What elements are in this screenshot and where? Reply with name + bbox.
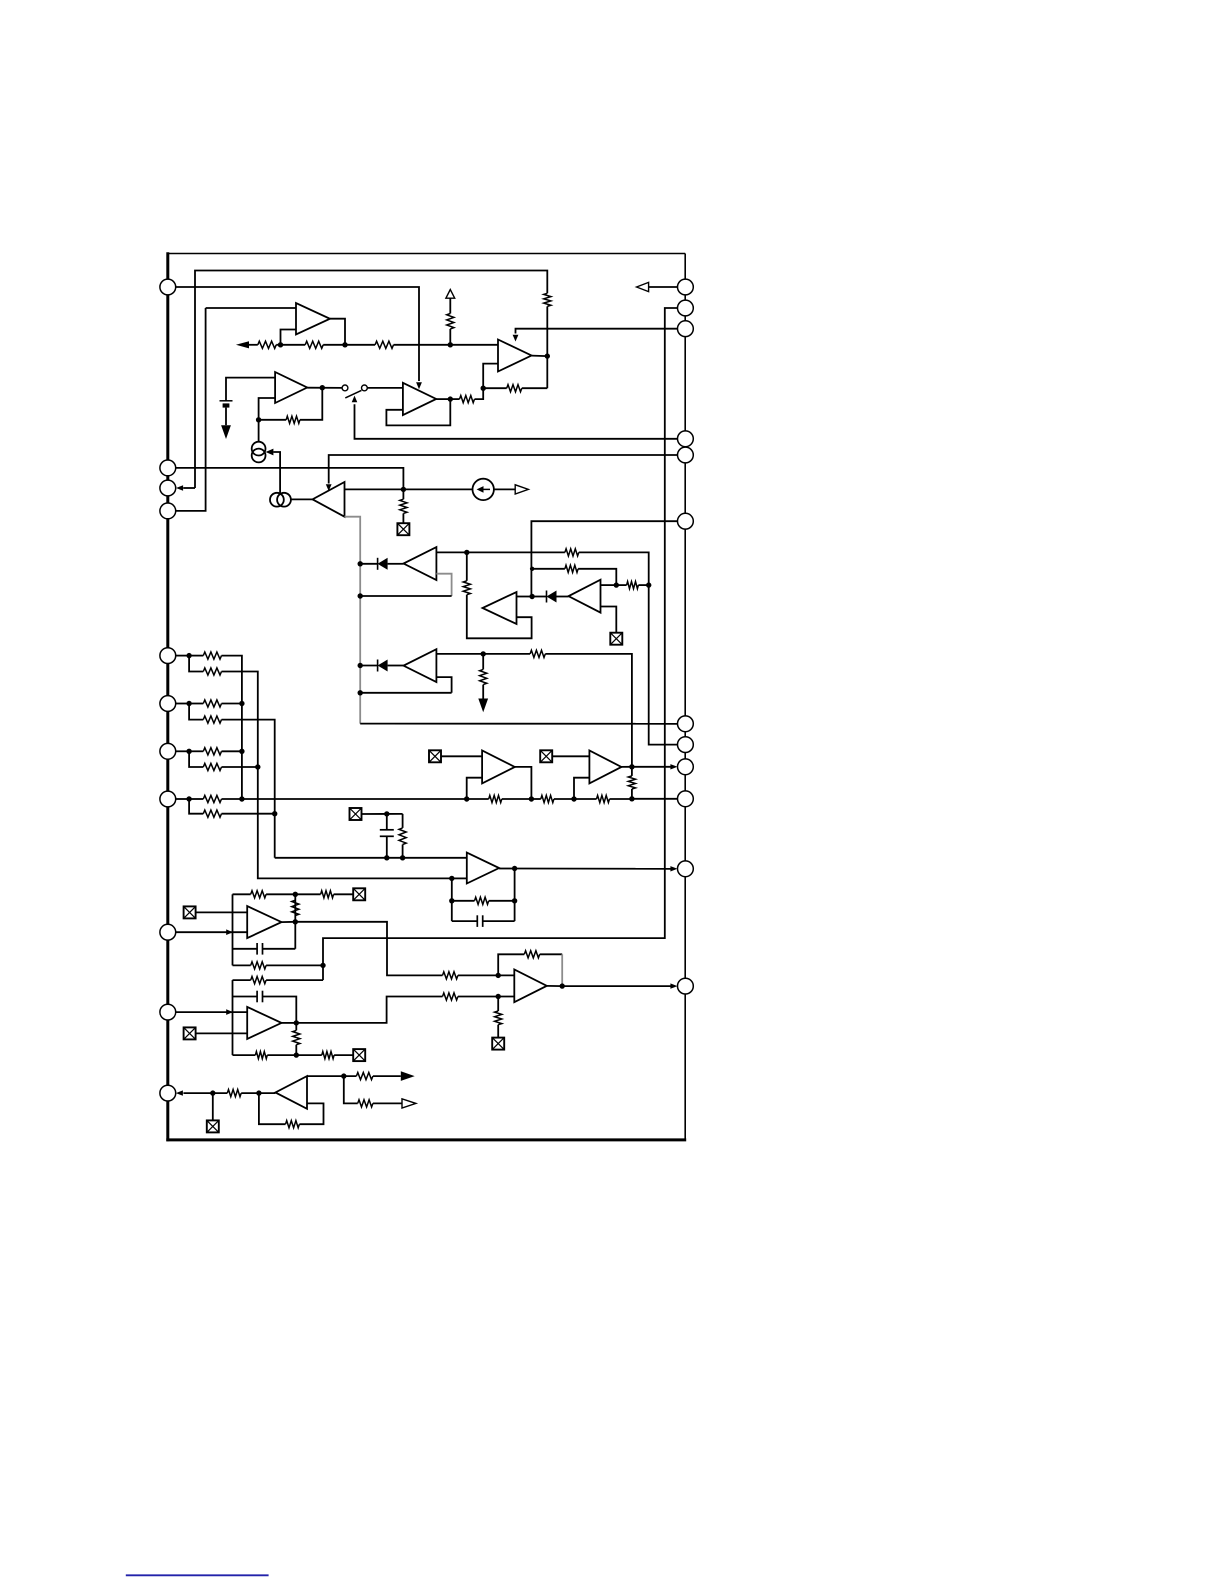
reference X2 xyxy=(610,633,622,645)
wire pin 17 to A7 xyxy=(175,931,247,933)
wire cap C2 left lead xyxy=(452,920,478,922)
arrow on pin18 wire xyxy=(226,1009,233,1015)
wire A2 inverting input xyxy=(259,398,276,420)
wire N2 to R25 xyxy=(531,798,540,800)
wire X4 to B1 xyxy=(441,755,482,757)
wire P8 lower xyxy=(189,656,203,672)
IC outline box top edge xyxy=(167,253,686,255)
wire U1 feedback xyxy=(281,330,297,345)
node K2 xyxy=(239,749,244,754)
wire R22 to bus K xyxy=(222,798,242,800)
pin circle right 7 xyxy=(678,716,694,732)
arrow into U2 xyxy=(416,382,422,389)
node P10 xyxy=(186,749,191,754)
node A8 fb xyxy=(294,1052,299,1057)
wire pin 1 to U2 input xyxy=(175,287,419,381)
node P9 xyxy=(186,701,191,706)
wire X3 to node RC xyxy=(362,813,403,815)
resistor R41 xyxy=(495,1011,502,1025)
resistor R22 xyxy=(203,795,221,802)
wire node to R4 xyxy=(345,344,375,346)
wire B4 output xyxy=(307,1075,356,1077)
wire R17 to bus L xyxy=(222,672,452,879)
node N2 xyxy=(529,796,534,801)
pin circle right 3 xyxy=(678,321,694,337)
node A7 fb xyxy=(293,892,298,897)
wire R36 to node xyxy=(267,1054,296,1056)
pin circle right 8 xyxy=(678,737,694,753)
wire P9a xyxy=(189,703,203,705)
wire battery down xyxy=(225,408,227,426)
reference X6 xyxy=(353,888,365,900)
node F2 xyxy=(530,567,534,571)
resistor R18 xyxy=(203,700,221,707)
resistor R29 xyxy=(475,897,489,904)
node B3 fb xyxy=(449,898,454,903)
capacitor C3 xyxy=(257,943,262,955)
arrow into pin 19 xyxy=(670,983,677,988)
wire R44 to arrow xyxy=(373,1075,401,1077)
wire R19 to bus M xyxy=(222,720,275,858)
op-amp U1 xyxy=(296,303,330,335)
wire R5 to node B xyxy=(449,329,451,345)
supply arrow down xyxy=(221,425,231,439)
wire arrow to R2 xyxy=(249,344,258,346)
op-amp B3 xyxy=(467,853,499,884)
wire A7 rail xyxy=(232,894,234,965)
node RC3 xyxy=(400,855,405,860)
node A5 in xyxy=(401,487,406,492)
arrowhead inside CS3 xyxy=(477,486,484,493)
wire R21 to bus L xyxy=(222,766,258,768)
wire A8 rail xyxy=(232,980,234,1055)
wire U1 noninverting input xyxy=(206,307,296,309)
node C xyxy=(481,386,486,391)
node E xyxy=(464,550,469,555)
resistor R13 xyxy=(627,582,639,589)
wire DA1 feedback step xyxy=(436,574,451,596)
wire DA3 feedback step xyxy=(436,677,451,693)
wire R42 to B4 xyxy=(241,1092,275,1094)
wire D2 to DA2 xyxy=(557,596,569,598)
op-amp B2 xyxy=(589,751,621,784)
wire N1 to R24 xyxy=(467,798,489,800)
wire DA3 input upper xyxy=(436,653,483,655)
resistor R26 xyxy=(597,795,610,802)
wire rail G down to pin 13 xyxy=(649,585,678,745)
resistor R4 xyxy=(375,341,393,348)
op-amp A5 xyxy=(313,482,345,517)
wire A9 m down xyxy=(497,997,499,1012)
wire A6 loop xyxy=(467,595,532,639)
resistor R31 xyxy=(321,891,334,898)
node G xyxy=(646,582,651,587)
wire A5 node to R9 xyxy=(402,489,404,499)
wire A7 output xyxy=(282,921,296,923)
switch S1 contact b xyxy=(362,385,368,391)
open arrow pin 2 xyxy=(637,282,649,291)
node A2 out xyxy=(320,385,325,390)
wire P8a xyxy=(189,655,203,657)
node B4 in xyxy=(256,1090,261,1095)
node RC1 xyxy=(384,811,389,816)
resistor R36 xyxy=(255,1052,267,1059)
wire R24 to N2 xyxy=(502,798,532,800)
wire CS2 to A5 xyxy=(291,498,313,500)
current source CS2 circle b xyxy=(277,493,291,507)
diode D1 xyxy=(378,558,388,570)
wire J1 to R28 xyxy=(631,767,633,776)
node DA2 out xyxy=(614,582,619,587)
wire B2 output xyxy=(621,766,632,768)
wire to pin 14 xyxy=(632,766,672,768)
node B3 out xyxy=(512,866,517,871)
wire P11 lower xyxy=(189,799,203,814)
wire A8 top fb a xyxy=(233,979,251,981)
wire A8 bottom fb xyxy=(233,1054,256,1056)
wire node E to R10 xyxy=(467,551,565,553)
wire A2 output xyxy=(307,387,343,389)
arrow into pin 20 xyxy=(176,1090,183,1095)
pin circle left 6 xyxy=(160,696,176,712)
pin circle left 10 xyxy=(160,1004,176,1020)
current source CS1 circle a xyxy=(252,442,266,456)
op-amp A7 xyxy=(247,906,281,938)
wire cap C2 right lead xyxy=(483,920,515,922)
node P11 xyxy=(186,796,191,801)
pin circle left 4 xyxy=(160,503,176,519)
wire A7 out to A9 xyxy=(295,922,442,976)
capacitor C1 lead up xyxy=(386,814,388,830)
arrow into CS1 xyxy=(266,449,274,456)
resistor R45 xyxy=(358,1100,373,1107)
resistor R9 xyxy=(400,499,407,513)
resistor R2 xyxy=(258,341,276,348)
wire R15 down xyxy=(482,685,484,699)
wire R10 to rail F xyxy=(579,552,649,585)
wire node D to current source xyxy=(258,420,260,442)
arrow into A5 xyxy=(326,484,332,491)
arrow into pin 14 xyxy=(670,764,677,769)
node F xyxy=(529,594,534,599)
resistor R38 xyxy=(443,972,458,979)
node A9 p xyxy=(496,973,501,978)
reference X10 xyxy=(492,1038,504,1050)
wire B3 output xyxy=(499,868,514,870)
reference X4 xyxy=(429,750,441,762)
resistor R11 xyxy=(463,581,470,595)
resistor R25 xyxy=(541,795,554,802)
wire CS3 to test point xyxy=(494,488,515,490)
open arrow monitor xyxy=(402,1099,416,1108)
arrow inside CS3 xyxy=(480,488,490,490)
wire A8 out to A9 xyxy=(296,997,442,1023)
node P8 xyxy=(186,653,191,658)
wire node to R31 xyxy=(295,893,320,895)
wire node H to R14 xyxy=(483,653,530,655)
reference X3 xyxy=(350,808,362,820)
capacitor C1 xyxy=(380,830,394,837)
wire pin 18 to A8 xyxy=(175,1011,247,1013)
wire N3 to R26 xyxy=(574,798,597,800)
resistor R37 xyxy=(322,1052,334,1059)
node DA3 in xyxy=(358,663,363,668)
node B4 out xyxy=(341,1073,346,1078)
wire DA2 output xyxy=(601,584,617,586)
resistor R19 xyxy=(203,716,221,723)
wire R20 to bus K xyxy=(222,750,242,752)
node A8 out xyxy=(294,1020,299,1025)
resistor R34 xyxy=(251,977,266,984)
wire node B to A3 input xyxy=(450,344,498,346)
wire to diode D1 xyxy=(360,563,377,565)
resistor R40 xyxy=(524,951,539,958)
pin circle left 5 xyxy=(160,648,176,664)
wire U1 input rail from pin 7 xyxy=(176,308,206,511)
IC outline box left edge xyxy=(166,252,169,1141)
wire pin 3 rail xyxy=(323,308,678,980)
wire A9 fb down xyxy=(561,954,563,986)
pin circle right 6 xyxy=(678,513,694,529)
battery plate short xyxy=(223,403,230,407)
wire arrow to R5 xyxy=(449,298,451,313)
switch S1 lever xyxy=(345,390,361,398)
current source CS3 xyxy=(473,479,494,500)
wire X3 branch to R27 xyxy=(402,814,404,828)
resistor R39 xyxy=(443,993,458,1000)
wire pin 5 to A5 node xyxy=(176,468,403,490)
wire DA3 feedback return xyxy=(360,692,451,694)
wire node C to R6 xyxy=(483,387,507,389)
resistor R3 xyxy=(305,341,323,348)
wire R26 to N4 xyxy=(610,798,632,800)
node B3 out2 xyxy=(512,898,517,903)
wire U1 output xyxy=(330,319,345,345)
wire R6 to A3 node xyxy=(522,387,548,389)
pin circle left 8 xyxy=(160,791,176,807)
resistor R1 xyxy=(544,293,551,306)
resistor R5 xyxy=(447,314,454,329)
wire A7 bottom fb xyxy=(233,964,251,966)
resistor R28 xyxy=(628,776,635,789)
wire U2 output xyxy=(436,398,450,400)
wire R38 to A9 xyxy=(458,974,514,976)
reference X7 xyxy=(184,906,196,918)
resistor R8 xyxy=(286,416,300,423)
node DA1 in xyxy=(358,561,363,566)
IC outline box right edge xyxy=(684,254,686,1140)
wire B1 inverting xyxy=(467,778,482,799)
power arrow up xyxy=(446,290,455,299)
wire R23 to bus M xyxy=(222,813,275,815)
current source CS1 circle b xyxy=(252,449,266,463)
pin circle left 7 xyxy=(160,743,176,759)
wire node to R37 xyxy=(296,1054,322,1056)
wire pin 10 xyxy=(175,750,189,752)
wire B3 inverting xyxy=(452,877,467,879)
pin circle left 9 xyxy=(160,924,176,940)
wire X7 to A7 xyxy=(196,911,248,913)
wire fb to R29 xyxy=(452,900,475,902)
wire to diode D3 xyxy=(360,665,377,667)
op-amp DA2 xyxy=(569,580,601,613)
wire R30 to node xyxy=(266,893,295,895)
wire node to R3 xyxy=(281,344,306,346)
wire node H down xyxy=(482,654,484,670)
arrow on pin17 wire xyxy=(226,929,233,935)
wire X11 lead xyxy=(212,1093,214,1120)
op-amp A3 xyxy=(498,340,532,372)
wire A5 input line xyxy=(345,488,473,490)
wire A3 output xyxy=(532,355,548,358)
wire A7 top fb a xyxy=(233,893,251,895)
node T1 xyxy=(320,963,325,968)
wire U2 feedback loop xyxy=(386,399,450,425)
wire N4 to pin 15 xyxy=(632,798,678,800)
switch control arrow xyxy=(352,396,358,403)
reference X8 xyxy=(184,1027,196,1039)
wire A7 fb vertical xyxy=(294,894,296,949)
wire pin 2 xyxy=(649,286,678,288)
wire X5 to B2 xyxy=(552,755,589,757)
arrow output left xyxy=(236,341,249,348)
op-amp B1 xyxy=(482,751,515,784)
wire DA1 feedback return xyxy=(360,595,451,597)
node N3 xyxy=(571,796,576,801)
resistor R12 xyxy=(565,565,578,572)
node N1 xyxy=(464,796,469,801)
node A9 m xyxy=(496,994,501,999)
resistor R33 xyxy=(251,962,266,969)
wire node E down xyxy=(466,552,468,580)
pin circle left 2 xyxy=(160,460,176,476)
wire B3 out to pin 16 xyxy=(515,868,672,870)
wire pin 9 xyxy=(175,703,189,705)
reference X5 xyxy=(540,750,552,762)
hyperlink underline xyxy=(126,1574,269,1576)
wire from node REF top rail xyxy=(195,271,547,489)
reference X11 xyxy=(207,1120,219,1132)
wire pin 6 stub xyxy=(183,487,195,489)
wire node F to diode D2 xyxy=(532,596,546,598)
op-amp A6 xyxy=(483,592,517,624)
node DA3 fb xyxy=(358,690,363,695)
wire B3 out down xyxy=(514,869,516,922)
wire A9 output xyxy=(547,985,562,987)
node U2 out xyxy=(448,396,453,401)
node H xyxy=(481,651,486,656)
wire P10 lower xyxy=(189,751,203,767)
wire rail to pin 12 xyxy=(360,723,678,725)
ground arrow xyxy=(478,699,488,713)
wire R39 to A9 xyxy=(458,996,514,998)
wire A3 out down xyxy=(546,356,548,388)
wire DA2 lower to ref X2 xyxy=(601,607,617,633)
wire A9 fb up xyxy=(498,954,524,975)
wire R25 to N3 xyxy=(554,798,574,800)
battery plate long xyxy=(220,400,233,402)
wire switch to U2 input xyxy=(367,387,403,389)
diode D3 xyxy=(378,660,388,672)
wire R27 down xyxy=(402,845,404,858)
IC outline box bottom edge xyxy=(166,1138,686,1141)
capacitor C4 xyxy=(257,991,262,1003)
wire pin 20 line xyxy=(183,1092,227,1094)
resistor R24 xyxy=(489,795,502,802)
node DA1 fb xyxy=(358,593,363,598)
pin circle right 5 xyxy=(678,447,694,463)
wire X8 to A8 xyxy=(196,1032,248,1034)
arrow into pin 16 xyxy=(670,866,677,871)
wire B3 fb down xyxy=(451,878,453,921)
wire A5 to detector rail xyxy=(345,517,361,724)
wire R2 to node xyxy=(276,344,280,346)
wire battery to A2 input xyxy=(226,378,275,401)
wire P10a xyxy=(189,750,203,752)
wire R7 to node C xyxy=(475,388,484,399)
wire R1 to A3 output node xyxy=(546,306,548,356)
reference X1 xyxy=(397,523,409,535)
resistor R16 xyxy=(203,652,221,659)
resistor R7 xyxy=(460,396,475,403)
node chain 1 xyxy=(278,342,283,347)
pin circle right 10 xyxy=(678,791,694,807)
reference X9 xyxy=(353,1049,365,1061)
pin circle right 12 xyxy=(678,978,694,994)
node D xyxy=(256,417,261,422)
wire R41 to X10 xyxy=(497,1025,499,1038)
wire A8 output xyxy=(282,1022,297,1024)
wire A7 cap lead b xyxy=(263,948,296,950)
wire B4 branch xyxy=(344,1076,358,1103)
node K3 xyxy=(239,796,244,801)
wire node to R13 xyxy=(616,584,626,586)
wire A5 ctrl to pin r6 xyxy=(329,455,678,484)
node B3 minus xyxy=(449,876,454,881)
wire R14 to rail J xyxy=(545,654,632,767)
resistor R30 xyxy=(251,891,266,898)
pin circle left 3 xyxy=(160,480,176,496)
resistor R15 xyxy=(480,669,487,684)
node A7 out xyxy=(293,919,298,924)
resistor R17 xyxy=(203,668,221,675)
wire R43 loop xyxy=(299,1103,323,1124)
resistor R10 xyxy=(565,549,579,556)
op-amp DA1 xyxy=(404,547,437,580)
wire bus M to B3 input xyxy=(275,857,467,859)
resistor R44 xyxy=(356,1073,373,1080)
wire R4 to node B xyxy=(394,344,451,346)
pin circle right 11 xyxy=(678,861,694,877)
wire P9 lower xyxy=(189,704,203,720)
wire A6 input xyxy=(517,596,533,598)
capacitor C1 lead down xyxy=(386,836,388,858)
wire R31 to X6 xyxy=(334,893,354,895)
arrow into A3 xyxy=(513,335,519,342)
resistor R6 xyxy=(507,385,522,392)
node chain 2 xyxy=(342,342,347,347)
pin circle left 1 xyxy=(160,279,176,295)
wire R28 to N4 xyxy=(631,789,633,799)
wire B4 feedback xyxy=(259,1093,286,1124)
wire A2 feedback xyxy=(300,388,322,420)
node M1 xyxy=(272,811,277,816)
resistor R14 xyxy=(530,650,545,657)
wire P11a xyxy=(189,798,203,800)
wire node to R7 xyxy=(450,398,459,400)
node B4 a xyxy=(210,1090,215,1095)
wire A3 inverting input xyxy=(483,364,498,389)
